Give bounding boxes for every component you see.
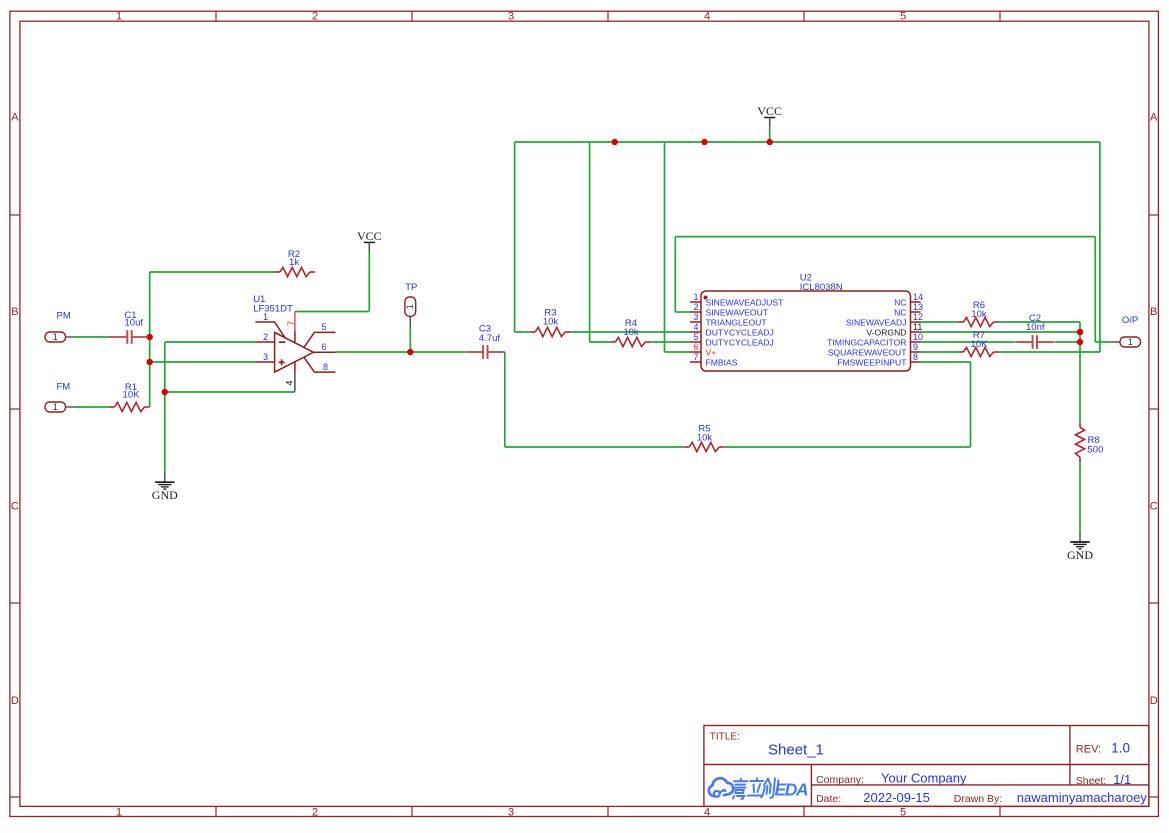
wire <box>769 127 771 142</box>
wire <box>1055 341 1080 343</box>
svg-text:10k: 10k <box>543 317 559 328</box>
wire <box>514 142 516 332</box>
svg-text:2: 2 <box>263 332 268 342</box>
junction <box>1077 329 1083 335</box>
junction <box>701 139 707 145</box>
U1 pin 3 <box>256 361 275 363</box>
svg-text:1: 1 <box>53 402 58 412</box>
ruler tick <box>411 806 413 816</box>
svg-text:O/P: O/P <box>1122 315 1138 326</box>
ruler tick <box>215 11 217 21</box>
svg-text:5: 5 <box>900 806 906 818</box>
ruler tick <box>10 602 20 604</box>
svg-text:8: 8 <box>913 352 918 362</box>
wire <box>674 237 676 312</box>
wire <box>1079 332 1081 422</box>
ground GND (right) <box>1079 532 1081 542</box>
svg-text:REV:: REV: <box>1076 744 1101 756</box>
U1 pin 2 <box>256 341 275 343</box>
wire <box>515 141 1100 143</box>
ruler tick <box>803 806 805 816</box>
U2 pin 10 TIMINGCAPACITOR <box>911 341 921 343</box>
JLC EDA logo cloud <box>709 778 734 796</box>
svg-text:Your Company: Your Company <box>881 771 967 786</box>
svg-text:SQUAREWAVEOUT: SQUAREWAVEOUT <box>828 347 908 357</box>
svg-text:7: 7 <box>693 352 698 362</box>
ruler tick <box>10 796 20 798</box>
svg-text:B: B <box>1150 306 1157 318</box>
wire <box>368 252 370 312</box>
U2 pin1 marker <box>704 296 708 300</box>
ruler tick <box>1149 796 1159 798</box>
svg-text:SINEWAVEOUT: SINEWAVEOUT <box>706 307 769 317</box>
wire <box>74 336 110 338</box>
svg-text:10k: 10k <box>697 433 713 444</box>
junction <box>147 359 153 365</box>
svg-text:500: 500 <box>1088 445 1104 456</box>
svg-text:Sheet:: Sheet: <box>1076 775 1106 787</box>
wire <box>650 341 690 343</box>
U2 pin 14 NC <box>911 301 921 303</box>
U2 pin 8 FMSWEEPINPUT <box>911 361 921 363</box>
svg-text:V+: V+ <box>706 347 717 357</box>
wire <box>999 321 1081 323</box>
svg-text:LF351DT: LF351DT <box>253 304 293 315</box>
ruler tick <box>803 11 805 21</box>
svg-text:1: 1 <box>405 304 415 309</box>
svg-text:GND: GND <box>152 488 178 502</box>
svg-text:3: 3 <box>693 312 698 322</box>
svg-text:Company:: Company: <box>816 774 864 786</box>
wire <box>74 406 110 408</box>
svg-text:VCC: VCC <box>757 104 782 118</box>
svg-text:EDA: EDA <box>775 780 809 800</box>
svg-text:13: 13 <box>913 302 923 312</box>
U1 pin 6 <box>314 351 336 353</box>
wire <box>165 391 295 393</box>
wire <box>664 142 666 352</box>
svg-text:2: 2 <box>312 11 318 23</box>
svg-text:1: 1 <box>53 332 58 342</box>
svg-text:4: 4 <box>704 11 710 23</box>
junction <box>1077 339 1083 345</box>
ruler tick <box>607 806 609 816</box>
svg-text:1: 1 <box>116 806 122 818</box>
svg-text:1: 1 <box>1128 337 1133 347</box>
svg-text:3: 3 <box>508 806 514 818</box>
wire <box>921 341 1015 343</box>
svg-text:Date:: Date: <box>816 793 841 805</box>
wire <box>164 392 166 473</box>
U1 pin 5 <box>304 332 336 347</box>
junction <box>147 334 153 340</box>
svg-text:NC: NC <box>894 307 906 317</box>
wire <box>295 311 369 313</box>
svg-text:V-ORGND: V-ORGND <box>866 327 906 337</box>
wire <box>970 362 972 447</box>
svg-text:C: C <box>11 501 19 513</box>
U1 pin 7 <box>294 312 296 332</box>
svg-text:2: 2 <box>693 302 698 312</box>
wire <box>336 351 466 353</box>
wire <box>589 142 591 342</box>
svg-text:Drawn By:: Drawn By: <box>954 793 1002 805</box>
U2 pin 13 NC <box>911 311 921 313</box>
wire <box>921 351 959 353</box>
svg-text:10uf: 10uf <box>125 318 144 329</box>
svg-text:5: 5 <box>900 11 906 23</box>
U2 pin 9 SQUAREWAVEOUT <box>911 351 921 353</box>
svg-text:14: 14 <box>913 292 923 302</box>
U1 pin 1 <box>256 322 286 338</box>
svg-text:DUTYCYCLEADJ: DUTYCYCLEADJ <box>706 327 774 337</box>
wire <box>149 272 151 407</box>
ruler tick <box>1149 214 1159 216</box>
svg-text:8: 8 <box>323 362 328 372</box>
wire <box>570 331 690 333</box>
svg-text:FMBIAS: FMBIAS <box>706 357 738 367</box>
wire <box>505 446 684 448</box>
ruler tick <box>10 408 20 410</box>
wire <box>724 446 970 448</box>
junction <box>162 389 168 395</box>
wire <box>921 361 971 363</box>
svg-text:D: D <box>11 695 19 707</box>
wire <box>164 342 166 392</box>
svg-text:1.0: 1.0 <box>1111 741 1130 756</box>
svg-text:4: 4 <box>285 381 296 386</box>
wire <box>150 271 275 273</box>
ruler tick <box>215 806 217 816</box>
svg-text:11: 11 <box>913 322 922 332</box>
ruler tick <box>10 214 20 216</box>
U2 pin 2 SINEWAVEOUT <box>690 311 701 313</box>
svg-text:FM: FM <box>57 382 71 393</box>
svg-text:9: 9 <box>913 342 918 352</box>
wire <box>921 331 1081 333</box>
wire <box>515 331 531 333</box>
svg-text:6: 6 <box>693 342 698 352</box>
U2 pin 11 V-ORGND <box>911 331 921 333</box>
svg-text:10nf: 10nf <box>1026 322 1045 333</box>
wire <box>1099 142 1101 352</box>
svg-text:4: 4 <box>704 806 710 818</box>
svg-text:SINEWAVEADJUST: SINEWAVEADJUST <box>706 297 785 307</box>
wire <box>1079 322 1081 332</box>
wire <box>590 341 611 343</box>
wire <box>1094 237 1096 342</box>
svg-text:nawaminyamacharoey: nawaminyamacharoey <box>1017 790 1148 805</box>
svg-text:A: A <box>1150 111 1158 123</box>
svg-text:TIMINGCAPACITOR: TIMINGCAPACITOR <box>827 337 906 347</box>
svg-text:NC: NC <box>894 297 906 307</box>
wire <box>675 236 1095 238</box>
svg-text:TITLE:: TITLE: <box>710 732 740 743</box>
U2 pin 4 DUTYCYCLEADJ <box>690 331 701 333</box>
JLC EDA logo text <box>732 778 779 799</box>
wire <box>409 328 411 353</box>
junction <box>612 139 618 145</box>
wire <box>165 341 256 343</box>
svg-text:3: 3 <box>508 11 514 23</box>
svg-text:GND: GND <box>1067 548 1093 562</box>
svg-text:10K: 10K <box>123 390 141 401</box>
svg-text:10: 10 <box>913 332 923 342</box>
svg-text:2: 2 <box>312 806 318 818</box>
svg-text:PM: PM <box>57 311 71 322</box>
U2 pin 1 SINEWAVEADJUST <box>690 301 701 303</box>
svg-text:B: B <box>11 306 18 318</box>
svg-text:C: C <box>1150 501 1158 513</box>
svg-text:1: 1 <box>693 292 698 302</box>
svg-text:SINEWAVEADJ: SINEWAVEADJ <box>846 317 907 327</box>
U1 pin 8 <box>304 357 336 372</box>
resistor R8 <box>1075 427 1084 457</box>
U2 pin 12 SINEWAVEADJ <box>911 321 921 323</box>
U2 pin 7 FMBIAS <box>690 361 701 363</box>
svg-text:7: 7 <box>286 321 297 326</box>
wire <box>150 361 256 363</box>
svg-text:Sheet_1: Sheet_1 <box>768 742 824 759</box>
wire <box>1095 341 1110 343</box>
ruler tick <box>411 11 413 21</box>
wire <box>675 311 690 313</box>
svg-text:4: 4 <box>693 322 698 332</box>
svg-text:A: A <box>11 111 19 123</box>
U2 pin 6 V+ <box>690 351 701 353</box>
svg-text:1/1: 1/1 <box>1113 772 1131 787</box>
svg-text:1: 1 <box>116 11 122 23</box>
svg-text:DUTYCYCLEADJ: DUTYCYCLEADJ <box>706 337 774 347</box>
wire <box>999 351 1100 353</box>
svg-text:5: 5 <box>322 322 327 332</box>
wire <box>1079 462 1081 532</box>
ground GND (left) <box>164 472 166 482</box>
U2 pin 3 TRIANGLEOUT <box>690 321 701 323</box>
ruler tick <box>999 806 1001 816</box>
wire <box>665 351 691 353</box>
svg-text:6: 6 <box>322 342 327 352</box>
wire <box>921 321 959 323</box>
ruler tick <box>1149 602 1159 604</box>
title block frame <box>704 726 1149 807</box>
svg-text:2022-09-15: 2022-09-15 <box>863 790 930 805</box>
svg-text:5: 5 <box>693 332 698 342</box>
svg-text:3: 3 <box>263 352 268 362</box>
svg-text:1k: 1k <box>289 257 299 268</box>
ruler tick <box>1149 408 1159 410</box>
svg-text:VCC: VCC <box>357 229 382 243</box>
svg-text:D: D <box>1150 695 1158 707</box>
ruler tick <box>607 11 609 21</box>
U2 pin 5 DUTYCYCLEADJ <box>690 341 701 343</box>
U1 pin 4 <box>294 362 296 372</box>
svg-text:FMSWEEPINPUT: FMSWEEPINPUT <box>837 357 907 367</box>
svg-text:TRIANGLEOUT: TRIANGLEOUT <box>706 317 768 327</box>
svg-text:1: 1 <box>263 312 268 322</box>
junction <box>767 139 773 145</box>
svg-text:4.7uf: 4.7uf <box>479 333 500 344</box>
svg-text:12: 12 <box>913 312 923 322</box>
wire <box>504 352 506 447</box>
junction <box>407 349 413 355</box>
svg-text:TP: TP <box>405 282 417 293</box>
ruler tick <box>999 11 1001 21</box>
